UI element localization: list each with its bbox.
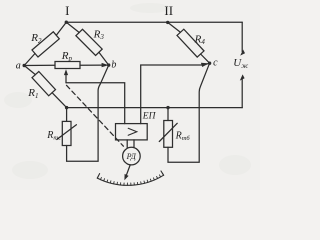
label Rtc [46, 130, 61, 141]
wire right side upper segment [241, 22, 243, 51]
wire wiper to amplifier left input [66, 83, 125, 124]
thermistor Rtb [159, 121, 177, 148]
label Rp [61, 50, 73, 63]
wire Rp to b with arrowhead at b [80, 64, 103, 66]
label R3 [93, 29, 105, 42]
motor РД [123, 147, 141, 165]
scale arc [97, 175, 163, 185]
svg-text:ЕП: ЕП [142, 112, 157, 122]
op-amp ЕП box [116, 124, 148, 140]
wire bottom rail [67, 107, 243, 109]
wire amplifier right input up and to node c with arrowhead [141, 64, 208, 124]
wire junction J1 to Rtc top [66, 108, 68, 122]
label ЕП [142, 112, 157, 122]
scan smudges (decorative) [4, 3, 251, 179]
node a label [16, 61, 21, 72]
resistor R2 [24, 22, 66, 65]
wiper of Rp [65, 73, 67, 83]
wire b down to Rtc bottom loop [67, 65, 109, 161]
thermistor Rtc [57, 121, 77, 145]
wire right side lower segment [241, 79, 243, 108]
wire junction J2 to Rtb top [167, 108, 169, 121]
svg-text:РД: РД [126, 152, 137, 161]
arrowhead lower (points up toward Uж) [240, 74, 245, 80]
node I junction [65, 21, 68, 24]
svg-text:a: a [16, 61, 21, 72]
svg-text:I: I [65, 3, 69, 18]
label R4 [194, 33, 206, 46]
scale end ticks [97, 171, 163, 178]
svg-text:II: II [164, 3, 173, 18]
svg-text:c: c [213, 58, 218, 69]
junction J2 [166, 106, 169, 109]
pointer of indicator [126, 165, 131, 177]
label R2 [30, 32, 42, 45]
node a junction [23, 64, 26, 67]
node II junction [166, 21, 169, 24]
junction J1 [65, 106, 68, 109]
scale ticks [97, 173, 163, 185]
svg-text:b: b [111, 59, 116, 70]
wires amplifier to motor [127, 140, 134, 148]
resistor R3 [66, 22, 108, 65]
node c label [213, 58, 218, 69]
wire a to Rp [24, 64, 55, 66]
mechanical link (dashed) wiper to motor [67, 85, 124, 146]
amplifier symbol > [128, 128, 137, 135]
wire top rail [66, 21, 242, 23]
node b label [111, 59, 116, 70]
node I label [65, 3, 69, 18]
label R1 [27, 87, 38, 100]
node c junction [208, 62, 211, 65]
resistor R4 [168, 22, 210, 63]
resistor R1 [24, 66, 66, 108]
label Uж [233, 57, 248, 70]
node b junction [107, 63, 110, 66]
potentiometer Rp [55, 62, 80, 69]
node II label [164, 3, 173, 18]
label Rtb [175, 131, 191, 142]
arrowhead upper (points down toward Uж) [240, 50, 245, 56]
wire c down to Rtb bottom loop [168, 63, 210, 162]
